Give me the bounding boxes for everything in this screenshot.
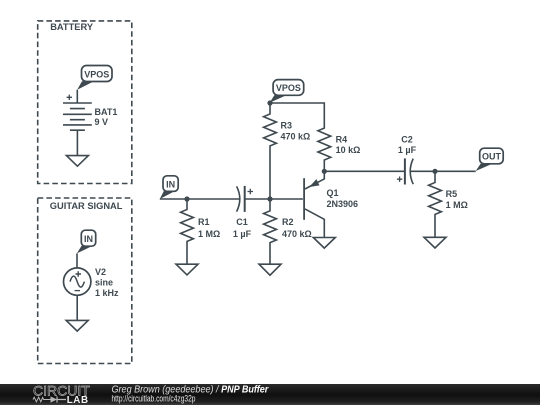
svg-text:C2: C2 bbox=[401, 135, 413, 145]
svg-text:VPOS: VPOS bbox=[276, 83, 301, 93]
svg-text:BATTERY: BATTERY bbox=[50, 22, 94, 32]
svg-text:1 MΩ: 1 MΩ bbox=[198, 229, 220, 239]
svg-text:R2: R2 bbox=[282, 217, 294, 227]
svg-text:470 kΩ: 470 kΩ bbox=[282, 229, 312, 239]
svg-text:VPOS: VPOS bbox=[84, 69, 109, 79]
svg-text:IN: IN bbox=[166, 179, 175, 189]
svg-text:LAB: LAB bbox=[67, 395, 89, 405]
svg-text:10 kΩ: 10 kΩ bbox=[336, 145, 361, 155]
svg-text:OUT: OUT bbox=[482, 152, 502, 162]
svg-text:R4: R4 bbox=[336, 134, 348, 144]
svg-text:BAT1: BAT1 bbox=[95, 107, 118, 117]
svg-text:R1: R1 bbox=[198, 217, 210, 227]
svg-text:1 kHz: 1 kHz bbox=[95, 288, 119, 298]
svg-text:C1: C1 bbox=[236, 217, 248, 227]
svg-text:Q1: Q1 bbox=[327, 188, 339, 198]
svg-text:V2: V2 bbox=[95, 267, 106, 277]
svg-text:IN: IN bbox=[84, 234, 93, 244]
svg-text:2N3906: 2N3906 bbox=[327, 199, 359, 209]
svg-text:9 V: 9 V bbox=[95, 117, 109, 127]
svg-text:470 kΩ: 470 kΩ bbox=[281, 131, 311, 141]
svg-text:GUITAR SIGNAL: GUITAR SIGNAL bbox=[50, 201, 123, 211]
svg-text:1 µF: 1 µF bbox=[233, 229, 252, 239]
svg-text:R3: R3 bbox=[281, 121, 293, 131]
svg-text:1 MΩ: 1 MΩ bbox=[446, 200, 468, 210]
svg-text:http://circuitlab.com/c4zg32p: http://circuitlab.com/c4zg32p bbox=[112, 394, 196, 404]
svg-text:1 µF: 1 µF bbox=[398, 145, 417, 155]
svg-text:sine: sine bbox=[95, 278, 113, 288]
svg-text:R5: R5 bbox=[446, 189, 458, 199]
